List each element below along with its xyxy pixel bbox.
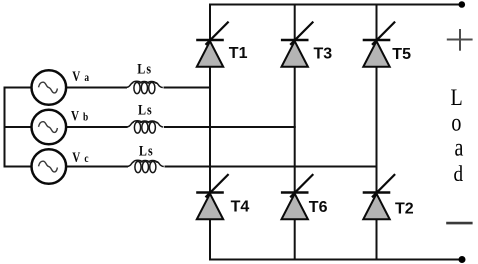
wire Ls2 to node B [164,126,296,128]
node positive terminal dot [459,1,466,8]
svg-text:Va: Va [72,69,89,85]
wire Ls3 to node C [165,166,378,168]
svg-text:a: a [455,133,464,161]
wire Vc to Ls3 [67,166,128,168]
wire left source bus vertical [4,87,6,168]
thyristor T1 [196,22,228,67]
thyristor T5 [363,22,395,67]
svg-text:T2: T2 [395,200,414,217]
inductor Ls phase a [126,81,163,93]
svg-text:T4: T4 [231,198,250,215]
label Load [451,84,464,186]
minus terminal symbol [446,222,472,225]
wire top bus [209,4,462,6]
wire leg2 middle [294,67,296,193]
wire leg3 top [376,4,378,41]
voltage source Vb [32,110,67,145]
inductor Ls phase b [127,121,164,133]
wire Vb to Ls2 [67,126,128,128]
wire stub to Vb [4,126,32,128]
voltage source Vc [32,149,67,184]
thyristor T6 [281,174,313,219]
wire bottom bus [209,259,463,261]
wire leg2 top [294,4,296,41]
wire leg1 bottom [209,219,211,260]
svg-text:Vc: Vc [72,150,88,166]
svg-text:T1: T1 [229,45,248,62]
thyristor T2 [363,174,395,219]
svg-text:Ls: Ls [138,102,152,118]
svg-text:T3: T3 [314,45,333,62]
wire leg3 bottom [376,219,378,260]
thyristor T4 [196,174,228,219]
svg-text:T5: T5 [392,46,411,63]
wire leg3 middle [376,67,378,193]
wire leg1 middle [209,67,211,193]
svg-text:Ls: Ls [139,142,153,158]
svg-text:Vb: Vb [71,108,88,124]
wire Va to Ls1 [67,87,127,89]
svg-text:Ls: Ls [137,61,151,77]
voltage source Va [32,70,67,105]
node negative terminal dot [459,256,466,263]
wire leg1 top [209,4,211,41]
wire Ls1 to node A [164,87,212,89]
inductor Ls phase c [127,160,164,172]
plus terminal symbol [447,29,473,51]
svg-text:L: L [451,84,463,110]
svg-text:T6: T6 [309,199,328,216]
wire stub to Vc [4,166,32,168]
thyristor T3 [281,22,313,67]
svg-text:d: d [454,161,464,187]
svg-text:o: o [451,109,461,137]
wire stub to Va [4,87,32,89]
wire leg2 bottom [294,219,296,260]
